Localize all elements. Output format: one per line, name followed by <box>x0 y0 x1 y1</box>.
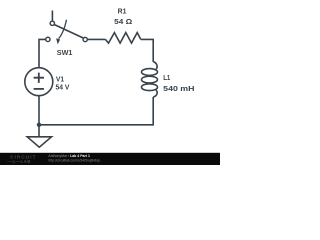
inductor L1 entry curve <box>153 62 157 70</box>
switch SW1 common terminal circle (right) <box>83 37 87 41</box>
inductor L1 loop 2 <box>142 76 158 83</box>
svg-text:—◇—LAB: —◇—LAB <box>7 159 31 164</box>
wire: resistor to top-right corner <box>141 39 153 62</box>
V1 plus sign <box>34 73 44 83</box>
V1 minus sign <box>34 88 44 90</box>
switch SW1 blade <box>54 25 83 38</box>
inductor L1 exit curve <box>153 90 157 97</box>
wire: source bottom to junction <box>38 96 40 125</box>
svg-text:54 Ω: 54 Ω <box>114 17 132 26</box>
svg-text:54 V: 54 V <box>56 83 70 92</box>
svg-text:R1: R1 <box>118 6 127 15</box>
svg-text:L1: L1 <box>163 73 170 82</box>
switch SW1 actuation arc <box>59 20 67 39</box>
switch SW1 arrowhead <box>56 38 60 44</box>
resistor R1 <box>105 33 140 44</box>
switch SW1 throw terminal circle (top) <box>50 21 54 25</box>
svg-text:SW1: SW1 <box>57 48 73 57</box>
wire: junction to ground <box>38 125 40 137</box>
inductor L1 loop 1 <box>142 69 158 76</box>
switch SW1 pole terminal circle (left) <box>46 37 50 41</box>
wire: left vertical from switch elbow down to source <box>39 39 46 67</box>
svg-text:540 mH: 540 mH <box>163 84 194 93</box>
wire: switch to resistor <box>88 38 106 40</box>
wire: switch top open stub <box>51 11 53 22</box>
watermark bar <box>0 153 220 165</box>
voltage source V1 circle <box>25 68 53 96</box>
junction dot <box>37 123 41 127</box>
svg-text:http://circuitlab.com/c/34r5nu: http://circuitlab.com/c/34r5nuj54bcp <box>48 158 100 163</box>
inductor L1 loop 3 <box>142 84 158 91</box>
wire: inductor down to bottom-right corner and bottom run <box>39 97 153 125</box>
ground <box>27 137 51 147</box>
